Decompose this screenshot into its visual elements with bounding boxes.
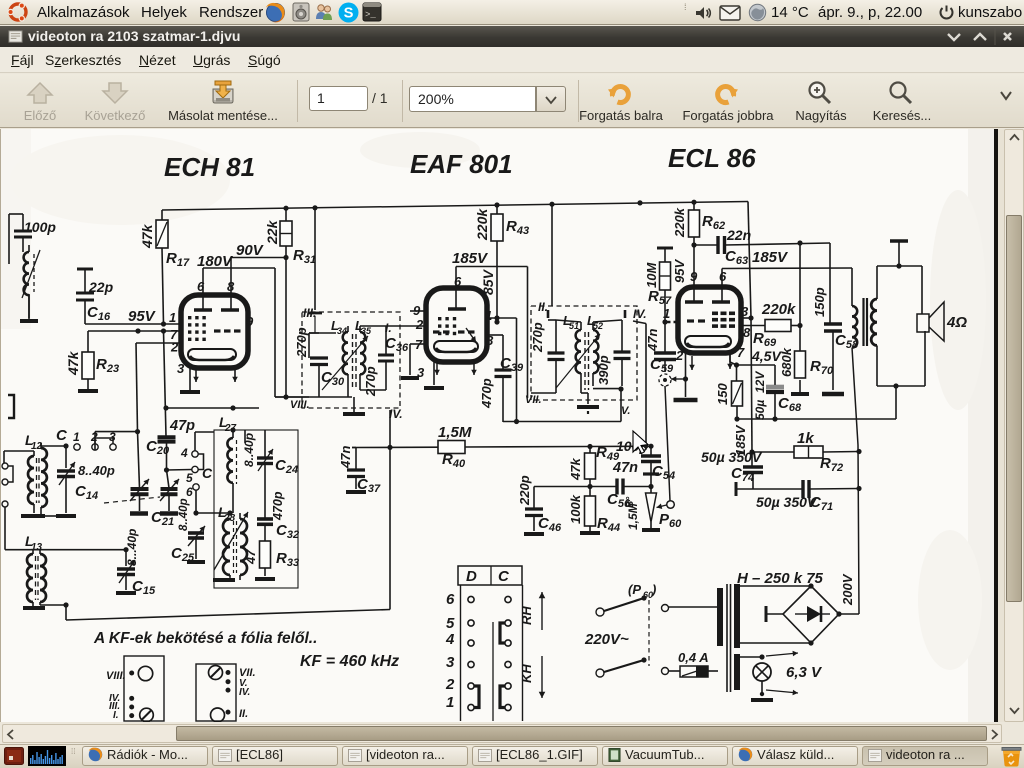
tube U2 pin7 wire	[401, 344, 426, 378]
IF T2 tuning arrow	[556, 334, 600, 388]
svg-text:150: 150	[715, 383, 730, 405]
wire 185V to OT primary	[851, 268, 853, 306]
svg-text:10M: 10M	[644, 262, 659, 288]
label transformer H-250k75	[737, 570, 824, 587]
wire 200V	[839, 573, 859, 614]
svg-text:2: 2	[445, 676, 455, 693]
pin labels U1	[169, 279, 254, 376]
wire 185V dropper	[733, 424, 755, 456]
svg-text:1: 1	[663, 306, 670, 321]
wire box1 IV to bottom bus	[389, 447, 391, 609]
capacitor C37 47n	[338, 446, 381, 495]
power transformer T3 primary	[717, 588, 723, 646]
IF T1 primary L34	[309, 318, 348, 397]
svg-text:ECL 86: ECL 86	[668, 143, 756, 173]
svg-text:5: 5	[186, 471, 193, 485]
svg-text:IV.: IV.	[239, 687, 250, 698]
wire oscillator line y550	[5, 547, 129, 552]
tube U1 ECH81 envelope	[181, 295, 248, 368]
speaker LS1	[917, 302, 967, 341]
svg-text:A KF-ek bekötésé a fólia felől: A KF-ek bekötésé a fólia felől..	[93, 630, 317, 647]
wire 180V (pin6)	[197, 253, 275, 270]
resistor R33 47	[243, 541, 299, 576]
wire bus to IF1 primary	[308, 208, 322, 333]
wire R43 to anode (85V)	[480, 241, 497, 322]
switch S1b contact 6	[186, 484, 199, 516]
svg-text:95V: 95V	[672, 259, 687, 283]
oscillator coil L28	[214, 504, 248, 580]
resistor R17 47k	[139, 210, 190, 269]
svg-text:8: 8	[227, 279, 235, 294]
capacitor C30 270p	[294, 327, 345, 397]
wire IF1 secondary to EAF grid	[386, 325, 426, 327]
svg-text:270p: 270p	[363, 366, 378, 397]
wire OT primary to 200V	[852, 348, 859, 615]
tube U2 diode arrow	[466, 328, 476, 342]
capacitor C63 22n	[691, 227, 830, 267]
svg-text:5: 5	[446, 615, 455, 632]
tube U2 grid	[438, 317, 456, 335]
tube U2 cathode arrows	[434, 360, 477, 375]
wire bus corner down	[672, 202, 752, 453]
svg-text:47n: 47n	[645, 329, 660, 352]
svg-text:220V~: 220V~	[584, 631, 629, 648]
wire anode coupling down	[516, 318, 518, 422]
antenna transformer L12	[25, 432, 56, 516]
svg-text:3: 3	[177, 361, 185, 376]
oscillator coil L27	[219, 414, 237, 513]
wire T2 out to ECL grid	[662, 290, 678, 325]
svg-text:3: 3	[741, 304, 749, 319]
arrow KH	[519, 656, 545, 698]
tube type label EAF 801	[410, 149, 513, 179]
svg-text:12V: 12V	[753, 371, 767, 393]
ground (R70)	[791, 380, 809, 394]
note KF value	[300, 653, 399, 670]
resistor R69 220k	[741, 301, 796, 349]
wire bottom ground bus	[66, 610, 390, 621]
wire 95V grid-1 line	[85, 308, 181, 327]
svg-text:2: 2	[675, 348, 684, 363]
wire pin3 node	[741, 315, 754, 320]
tube U3 pin7 stem	[727, 353, 739, 369]
ground (antenna coil)	[20, 294, 38, 321]
wire AVC bus junctions	[387, 410, 653, 450]
svg-text:2: 2	[415, 317, 424, 332]
antenna terminal bracket	[8, 395, 14, 418]
tube U2 EAF801 envelope	[426, 288, 487, 362]
svg-text:185V: 185V	[452, 250, 489, 267]
output transformer primary	[852, 306, 857, 348]
trimmer capacitor C24 8..40p	[242, 433, 298, 476]
svg-text:1,5M: 1,5M	[626, 502, 640, 530]
svg-text:VIII.: VIII.	[106, 670, 126, 682]
pin labels U2	[413, 274, 494, 380]
svg-text:KF = 460 kHz: KF = 460 kHz	[300, 653, 399, 670]
contact table DC	[445, 566, 523, 721]
ground (L12 primary)	[21, 514, 45, 518]
svg-text:8: 8	[743, 325, 751, 340]
svg-text:22k: 22k	[264, 219, 280, 245]
capacitor C52in 390p	[596, 320, 631, 386]
wire pin2 line to gang	[135, 343, 181, 434]
capacitor C51in 270p	[530, 320, 565, 393]
capacitor C32 470p	[257, 476, 299, 541]
oscillator coil L13	[25, 533, 46, 607]
svg-text:(P: (P	[628, 582, 641, 597]
capacitor C56 47n	[607, 460, 651, 510]
wire C24 top feed	[245, 430, 265, 444]
wire L13 bottom to bus	[40, 602, 69, 620]
svg-text:4: 4	[445, 631, 455, 648]
tube U1 pin8 stem	[230, 258, 232, 311]
svg-text:90V: 90V	[236, 242, 265, 259]
IF T1 secondary L35	[355, 318, 372, 390]
wire contact6 to L28	[196, 510, 233, 515]
svg-text:EAF 801: EAF 801	[410, 149, 513, 179]
ground (L13)	[23, 606, 45, 610]
svg-text:1: 1	[169, 310, 176, 325]
capacitor C20 47p	[146, 331, 195, 473]
ground (L28)	[213, 577, 235, 580]
wire switch2 to gang node	[95, 432, 138, 451]
output transformer core	[864, 298, 868, 346]
ground (lamp)	[751, 692, 773, 700]
ground (tube U1 cathode)	[180, 368, 200, 392]
capacitor C59 47n	[645, 322, 676, 375]
svg-text:>_: >_	[365, 10, 376, 20]
svg-text:270p: 270p	[294, 327, 309, 358]
wire U2 pin8	[487, 334, 503, 336]
power transformer T3 6.3V winding	[734, 654, 740, 690]
resistor R40 1,5M (AVC)	[352, 424, 588, 470]
wire 50µ350V line	[753, 480, 862, 513]
capacitor C54 100p	[616, 438, 675, 489]
tube U1 cathode	[188, 349, 236, 360]
antenna coil	[22, 245, 40, 318]
svg-text:47p: 47p	[169, 418, 195, 434]
svg-text:8..40p: 8..40p	[178, 498, 190, 531]
label 220V~	[584, 631, 629, 648]
svg-text:220k: 220k	[474, 208, 490, 241]
svg-text:680k: 680k	[779, 347, 794, 377]
wire IF1 bottom rail	[275, 390, 386, 397]
svg-text:51: 51	[569, 321, 579, 331]
potentiometer P60 1,5M	[626, 487, 682, 531]
tube U3 cathode	[685, 336, 731, 347]
capacitor C39 470p	[479, 335, 524, 422]
tube U2 anode bar	[448, 307, 466, 311]
svg-text:34: 34	[337, 326, 347, 336]
antenna terminals	[2, 463, 13, 507]
wire R17 bottom to grid node	[162, 248, 164, 324]
capacitor C58 150p	[812, 243, 859, 390]
IF T2 entry ticks	[548, 310, 625, 318]
ground (R44)	[580, 526, 600, 533]
svg-text:V.: V.	[621, 405, 630, 417]
svg-text:VII.: VII.	[525, 394, 542, 406]
note handwriting	[93, 630, 317, 647]
resistor R31 22k	[264, 208, 316, 266]
arrow RH	[519, 592, 545, 630]
tube U1 control grid	[188, 316, 206, 341]
svg-text:0,4 A: 0,4 A	[678, 650, 709, 665]
svg-text:47k: 47k	[568, 458, 583, 481]
wire detector node y489	[534, 484, 617, 489]
svg-text:S: S	[344, 6, 354, 22]
variable capacitor C21a	[130, 432, 149, 514]
svg-text:22n: 22n	[726, 227, 751, 243]
trimmer capacitor C15 8...40p	[116, 529, 156, 597]
svg-text:220k: 220k	[672, 207, 687, 238]
oscillator section box	[214, 430, 298, 588]
resistor R72 1k	[753, 430, 862, 474]
wire R31 bottom 90V node	[283, 246, 288, 260]
svg-text:470p: 470p	[479, 378, 494, 409]
svg-text:47k: 47k	[139, 223, 155, 249]
wire T2 secondary out	[593, 386, 624, 421]
resistor R71 150	[715, 365, 743, 406]
pilot lamp LA1 6,3V	[740, 651, 823, 696]
svg-text:6,3 V: 6,3 V	[786, 664, 823, 681]
svg-text:220p: 220p	[517, 475, 532, 506]
wire cathode 4,5V	[737, 348, 783, 386]
tube type label ECL 86	[668, 143, 756, 173]
wire R69 right node	[791, 323, 803, 328]
svg-text:390p: 390p	[596, 355, 611, 385]
svg-text:2: 2	[170, 340, 179, 355]
tube U2 pin9 stub	[410, 310, 426, 312]
IF transformer T2 shield box	[525, 300, 647, 417]
svg-text:6: 6	[186, 485, 193, 499]
node circle (C59)	[659, 374, 671, 501]
wire L12 to C contact	[41, 443, 69, 449]
IF T2 primary L51	[563, 313, 581, 393]
capacitor 100p (antenna coupling)	[9, 214, 56, 264]
svg-text:6: 6	[446, 591, 455, 608]
wire grid-7 line	[88, 328, 181, 333]
tube U3 anode bars	[685, 300, 730, 303]
svg-text:RH: RH	[519, 606, 534, 625]
svg-text:IV.: IV.	[633, 307, 647, 321]
capacitor C46 220p	[517, 475, 562, 534]
wire cathode bottom y419	[734, 383, 898, 421]
svg-text:C: C	[202, 465, 213, 481]
svg-text:8...40p: 8...40p	[125, 529, 139, 566]
ground (U3 pin2)	[671, 353, 698, 400]
svg-text:ECH 81: ECH 81	[164, 152, 255, 182]
wire B+ top bus	[162, 200, 748, 211]
resistor R43 220k	[474, 205, 529, 241]
svg-text:47n: 47n	[612, 460, 638, 476]
svg-text:470p: 470p	[271, 491, 285, 521]
svg-text:150p: 150p	[812, 287, 827, 317]
resistor R62 220k	[672, 202, 725, 238]
connector block P1	[106, 656, 164, 722]
svg-text:9: 9	[690, 269, 698, 284]
tube U3 ECL86 envelope	[678, 287, 741, 353]
power transformer T3 core	[727, 584, 731, 692]
switch S1b contacts 4/5	[167, 432, 215, 485]
svg-text:180V: 180V	[197, 253, 234, 270]
svg-text:47n: 47n	[338, 446, 353, 469]
tube U1 pin6 stem	[202, 268, 204, 310]
wire antenna gnd drop	[4, 507, 6, 550]
svg-text:C: C	[498, 568, 510, 585]
switch link dashed	[648, 600, 650, 666]
power transformer T3 HT secondary	[734, 584, 740, 648]
IF T2 secondary L52	[587, 313, 603, 386]
IF T2 wires	[531, 320, 648, 449]
ground (R33)	[255, 577, 275, 581]
wire OT secondary top	[877, 263, 922, 299]
tube U3 pin6 stem	[721, 269, 723, 303]
wire C63 node down to R69	[797, 240, 802, 325]
svg-text:22p: 22p	[88, 279, 114, 295]
wire IF-1 bottom link	[275, 394, 309, 399]
center tap terminal	[766, 606, 783, 622]
wire speaker top	[921, 266, 923, 314]
resistor R49 47k	[568, 444, 620, 487]
svg-text:270p: 270p	[530, 322, 545, 353]
svg-text:7: 7	[737, 345, 745, 360]
svg-text:6: 6	[197, 279, 205, 294]
speaker feed terminal	[890, 241, 908, 266]
ground (IF1)	[343, 397, 365, 414]
svg-text:1: 1	[73, 430, 80, 444]
svg-text:95V: 95V	[128, 308, 157, 325]
svg-text:50µ: 50µ	[753, 400, 767, 420]
svg-text:D: D	[466, 568, 477, 585]
IF T1 tuning arrow	[322, 336, 368, 390]
terminal (C74)	[736, 482, 753, 496]
tube U3 cathode arrow left	[689, 356, 695, 370]
resistor R44 100k	[568, 487, 620, 535]
output transformer secondary	[871, 299, 877, 345]
svg-text:IV.: IV.	[389, 407, 403, 421]
svg-text:200V: 200V	[840, 573, 855, 606]
wire antenna to L12	[4, 451, 34, 463]
svg-text:9: 9	[246, 314, 254, 329]
mouse cursor	[633, 431, 648, 454]
svg-text:3: 3	[446, 654, 455, 671]
wire U2 anode node	[487, 315, 517, 324]
fuse F1 0,4A	[678, 650, 718, 677]
svg-text:8..40p: 8..40p	[242, 433, 256, 467]
gang link dashed	[104, 497, 160, 503]
IF transformer T1 shield box	[290, 306, 403, 421]
capacitor C68 50µ 12V	[753, 371, 802, 422]
svg-text:I.: I.	[113, 710, 119, 721]
tube U2 cathode	[434, 341, 478, 352]
tube U3 dashes	[687, 312, 735, 328]
svg-text:III.: III.	[303, 306, 316, 320]
svg-text:6: 6	[719, 269, 727, 284]
tube type label ECH 81	[164, 152, 255, 182]
svg-text:1k: 1k	[797, 430, 814, 447]
svg-text:47k: 47k	[65, 350, 81, 376]
connector block P2	[196, 664, 256, 722]
IF T2 core	[585, 332, 589, 390]
wire 90V (pin8)	[231, 242, 286, 259]
capacitor C36 270p	[360, 326, 409, 397]
svg-text:50µ 350V: 50µ 350V	[756, 494, 818, 510]
ground (C58)	[822, 392, 844, 397]
resistor R23 47k	[65, 331, 119, 379]
capacitor C74 50µ 350V	[701, 449, 763, 487]
wire detector out y422	[503, 419, 621, 424]
svg-text:II.: II.	[239, 708, 248, 720]
svg-text:1: 1	[446, 694, 454, 711]
wire 180V feed down x275	[274, 268, 276, 397]
capacitor C16 22p	[76, 269, 114, 324]
svg-text:8..40p: 8..40p	[78, 463, 115, 478]
mains switch S2b	[596, 657, 680, 677]
svg-text:KH: KH	[519, 664, 534, 683]
mains switch S2a	[596, 582, 718, 616]
svg-text:C: C	[56, 427, 68, 444]
resistor R57 10M	[644, 248, 673, 307]
svg-text:100k: 100k	[568, 494, 583, 524]
svg-text:47: 47	[243, 549, 258, 565]
tube U1 anode bars	[194, 308, 239, 311]
svg-text:220k: 220k	[761, 301, 796, 318]
wire bus to T2	[551, 204, 553, 306]
svg-text:4,5V: 4,5V	[751, 348, 782, 364]
wire OT secondary bottom	[877, 331, 925, 386]
wire osc grid loop y408	[166, 405, 259, 410]
svg-text:1: 1	[485, 308, 492, 323]
resistor R70 680k	[779, 326, 834, 379]
bridge rectifier D1	[783, 583, 842, 645]
bridge input wires	[740, 586, 811, 643]
trimmer capacitor C25 8..40p	[171, 498, 205, 564]
ground (U2 cathode)	[424, 362, 444, 388]
tube U3 pin9 stem	[693, 245, 695, 302]
band switch S1a contacts	[56, 427, 116, 450]
wire 185V screen feed	[452, 250, 528, 398]
pin labels U3	[663, 269, 751, 363]
variable capacitor C21b	[151, 470, 179, 528]
svg-text:4: 4	[180, 446, 188, 460]
svg-text:6: 6	[454, 274, 462, 289]
trimmer capacitor C14 8..40p	[56, 446, 115, 516]
tube U2 dashes	[433, 330, 475, 333]
tube U1 cathode arrows	[193, 369, 238, 382]
tube U1 grid dashes	[214, 329, 241, 332]
svg-text:II.: II.	[538, 300, 548, 314]
ground (IF T2)	[577, 393, 599, 414]
svg-text:35: 35	[361, 326, 372, 336]
wire AVC drop x287	[285, 258, 287, 398]
IF T1 core	[353, 334, 357, 390]
svg-text:4Ω: 4Ω	[946, 314, 967, 331]
svg-text:185V: 185V	[752, 249, 789, 266]
wire 185V anode line	[722, 249, 852, 269]
ground (R23)	[78, 379, 98, 391]
svg-text:1,5M: 1,5M	[438, 424, 472, 441]
svg-text:100p: 100p	[24, 219, 56, 235]
svg-text:VIII.: VIII.	[290, 399, 310, 411]
